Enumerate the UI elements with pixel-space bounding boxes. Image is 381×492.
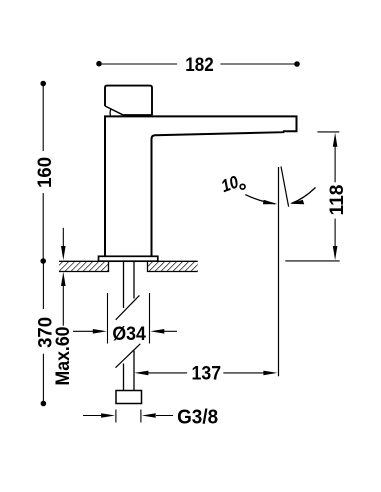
pipe break diagonal lower bbox=[116, 344, 141, 368]
dimension Max.60 lower arrow bbox=[61, 272, 66, 286]
dimension G3/8 extension lines bbox=[115, 410, 117, 423]
threaded shank upper segment bbox=[124, 262, 135, 309]
svg-text:G3/8: G3/8 bbox=[177, 405, 218, 428]
connection nut bbox=[116, 391, 142, 404]
svg-text:Ø34: Ø34 bbox=[112, 323, 146, 345]
angle arc right with arrowhead bbox=[292, 188, 316, 204]
countertop left slab with hatch bbox=[59, 261, 109, 271]
pipe break diagonal upper bbox=[116, 295, 140, 319]
angle arc left with arrowhead bbox=[245, 195, 275, 204]
degree ring bbox=[240, 184, 245, 189]
dimension O34 arrows bbox=[73, 330, 94, 332]
outlet tilted line (10 deg) bbox=[281, 167, 289, 207]
dimension 118 line bbox=[334, 146, 336, 247]
dimension O34 extension lines bbox=[108, 293, 150, 344]
outlet axis vertical line bbox=[278, 167, 280, 376]
dimension Max.60 upper arrow bbox=[62, 228, 64, 326]
threaded shank lower segment bbox=[124, 351, 135, 391]
dimension G3/8 arrows bbox=[83, 415, 102, 417]
svg-text:182: 182 bbox=[185, 54, 214, 76]
dimension 370 line bbox=[42, 261, 44, 404]
faucet body and spout outline bbox=[104, 116, 297, 256]
dimension 118 extension lines bbox=[317, 131, 339, 133]
svg-text:160: 160 bbox=[34, 157, 56, 188]
handle pivot arc detail bbox=[109, 109, 112, 116]
base flange bbox=[99, 256, 158, 261]
dimension 182 line bbox=[99, 63, 297, 65]
countertop right slab with hatch bbox=[148, 261, 198, 271]
dimension 137 line bbox=[148, 372, 264, 374]
faucet handle lever bbox=[105, 86, 152, 116]
svg-text:118: 118 bbox=[326, 184, 348, 215]
svg-text:137: 137 bbox=[192, 363, 222, 385]
svg-text:Max.60: Max.60 bbox=[52, 326, 74, 385]
dimension 160 line bbox=[42, 84, 44, 262]
